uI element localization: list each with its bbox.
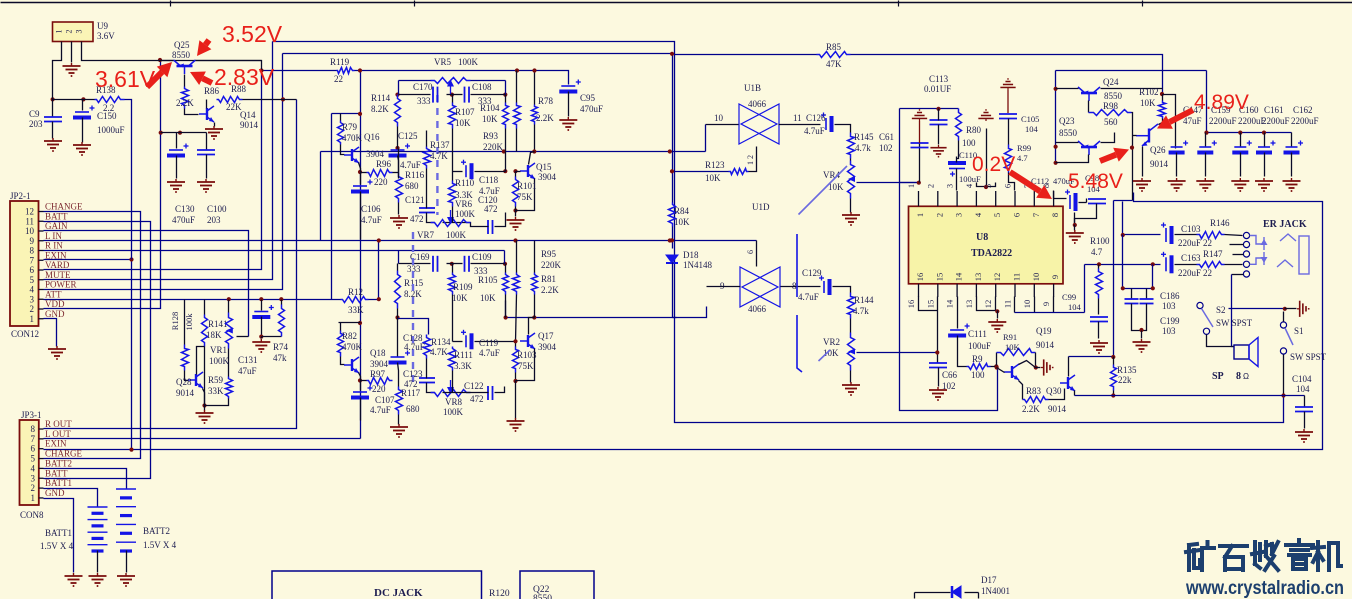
- ground S1 rail sideways: [1297, 301, 1309, 317]
- capacitor C100: [206, 133, 208, 151]
- capacitor C120: [488, 220, 493, 234]
- ground Q26: [1133, 178, 1151, 191]
- ground C186/C199: [1133, 339, 1151, 352]
- watermark logo: [1186, 542, 1214, 570]
- connector JP3-1: [20, 420, 39, 505]
- svg-text:1: 1: [30, 314, 35, 324]
- svg-text:220uF: 220uF: [1178, 238, 1201, 248]
- svg-text:R9: R9: [972, 354, 983, 364]
- resistor R123: [729, 169, 749, 175]
- svg-text:472: 472: [484, 204, 498, 214]
- svg-text:11: 11: [1003, 300, 1013, 308]
- svg-text:100uF: 100uF: [968, 341, 991, 351]
- svg-text:GND: GND: [45, 309, 65, 319]
- resistor R102: [1159, 101, 1166, 119]
- svg-text:Q16: Q16: [364, 132, 380, 142]
- svg-text:12: 12: [25, 207, 34, 217]
- svg-text:C9: C9: [29, 109, 40, 119]
- resistor R119: [337, 68, 355, 74]
- svg-text:7: 7: [1031, 213, 1041, 217]
- svg-text:6: 6: [31, 444, 36, 454]
- capacitor C105: [1000, 79, 1015, 90]
- svg-text:102: 102: [879, 143, 893, 153]
- transistor Q14: [199, 106, 214, 122]
- svg-text:R83: R83: [1026, 386, 1042, 396]
- svg-text:1: 1: [915, 213, 925, 217]
- svg-text:10: 10: [714, 113, 724, 123]
- svg-text:100K: 100K: [443, 407, 464, 417]
- svg-text:47uF: 47uF: [238, 366, 257, 376]
- svg-text:9: 9: [1050, 275, 1060, 279]
- capacitor C106: [360, 173, 362, 185]
- pin 6 U8: [1014, 191, 1016, 206]
- svg-text:Q18: Q18: [370, 348, 386, 358]
- svg-text:C111: C111: [968, 329, 987, 339]
- capacitor C103: [1161, 223, 1172, 245]
- ground C159: [1196, 178, 1214, 191]
- ground Q19 sideways: [1041, 359, 1053, 375]
- wire C113 loop: [900, 108, 959, 110]
- svg-text:R147: R147: [1203, 249, 1223, 259]
- resistor R128: [184, 300, 186, 345]
- svg-text:10K: 10K: [1005, 342, 1021, 352]
- wire y113 rail: [332, 113, 361, 115]
- svg-text:VR8: VR8: [445, 397, 463, 407]
- wire L OUT: [44, 438, 361, 440]
- svg-text:4066: 4066: [748, 99, 767, 109]
- svg-text:R84: R84: [674, 206, 690, 216]
- svg-text:10K: 10K: [482, 114, 498, 124]
- svg-text:103: 103: [1162, 301, 1176, 311]
- svg-text:R80: R80: [966, 125, 982, 135]
- svg-text:BATT1: BATT1: [45, 528, 72, 538]
- svg-text:R117: R117: [401, 388, 421, 398]
- jack contacts: [1243, 232, 1249, 238]
- resistor R115: [395, 271, 401, 309]
- svg-text:8.2K: 8.2K: [371, 104, 389, 114]
- svg-text:C109: C109: [472, 252, 492, 262]
- pin 11 U8: [1014, 284, 1016, 297]
- capacitor C121: [419, 208, 435, 213]
- svg-text:SW SPST: SW SPST: [1290, 352, 1327, 362]
- svg-text:6: 6: [1003, 184, 1013, 188]
- svg-text:R135: R135: [1117, 365, 1137, 375]
- wire BATT2: [44, 469, 127, 489]
- svg-text:472: 472: [404, 379, 418, 389]
- svg-text:5: 5: [983, 184, 993, 188]
- capacitor C122: [488, 386, 493, 400]
- svg-text:8550: 8550: [1104, 91, 1123, 101]
- ground R117: [390, 424, 408, 437]
- resistor R81: [532, 273, 538, 295]
- svg-text:8550: 8550: [172, 50, 191, 60]
- resistor R138: [95, 97, 125, 103]
- capacitor C128: [397, 318, 399, 357]
- speaker SP: [1234, 345, 1249, 359]
- svg-text:1N4001: 1N4001: [981, 586, 1010, 596]
- power flag pin4/5: [978, 110, 993, 121]
- pin 1 U8: [918, 191, 920, 206]
- capacitor C66: [937, 353, 939, 363]
- resistor R101: [513, 177, 519, 207]
- svg-text:DC JACK: DC JACK: [374, 587, 423, 599]
- svg-text:100: 100: [971, 370, 985, 380]
- svg-text:R110: R110: [455, 178, 475, 188]
- svg-text:R105: R105: [478, 275, 498, 285]
- capacitor C112: [1065, 190, 1076, 212]
- svg-text:C126: C126: [806, 113, 826, 123]
- ground C160: [1231, 178, 1249, 191]
- capacitor C159: [1205, 133, 1207, 147]
- svg-text:1: 1: [31, 493, 36, 503]
- svg-text:2: 2: [31, 483, 36, 493]
- svg-text:9014: 9014: [176, 388, 195, 398]
- resistor R103: [513, 347, 519, 373]
- svg-text:VR5: VR5: [434, 57, 452, 67]
- transistor Q15: [520, 163, 535, 179]
- resistor R91: [996, 353, 998, 368]
- wire EXIN bus: [44, 259, 132, 261]
- svg-text:680: 680: [406, 404, 420, 414]
- svg-text:R120: R120: [489, 589, 510, 599]
- svg-text:100K: 100K: [209, 356, 230, 366]
- capacitor C98: [1088, 199, 1106, 204]
- wire top S1 rail: [1229, 308, 1285, 310]
- svg-text:472: 472: [470, 394, 484, 404]
- svg-text:D17: D17: [981, 575, 997, 585]
- svg-text:R145: R145: [854, 132, 874, 142]
- resistor R97: [367, 378, 393, 385]
- svg-text:11: 11: [25, 216, 34, 226]
- svg-text:75K: 75K: [517, 192, 533, 202]
- ground VR4: [842, 212, 860, 225]
- svg-text:3: 3: [30, 294, 35, 304]
- pin 16 U8: [918, 284, 920, 297]
- svg-text:3.52V: 3.52V: [222, 21, 283, 47]
- capacitor C108: [465, 87, 470, 103]
- svg-text:220K: 220K: [541, 260, 562, 270]
- capacitor C170: [433, 87, 438, 103]
- svg-text:12: 12: [983, 300, 993, 309]
- capacitor C111: [957, 297, 959, 329]
- svg-text:U1B: U1B: [744, 83, 761, 93]
- svg-text:47uF: 47uF: [1183, 116, 1202, 126]
- svg-text:ATT: ATT: [45, 289, 62, 299]
- switch S1: [1280, 322, 1286, 328]
- svg-text:10K: 10K: [705, 173, 721, 183]
- svg-text:2200uF: 2200uF: [1209, 116, 1237, 126]
- pin 12 U8: [995, 284, 997, 297]
- svg-text:CHANGE: CHANGE: [45, 202, 83, 212]
- svg-text:2200uF: 2200uF: [1291, 116, 1319, 126]
- svg-text:Q14: Q14: [240, 110, 256, 120]
- svg-text:BATT: BATT: [45, 211, 68, 221]
- svg-text:R109: R109: [453, 282, 473, 292]
- ground C95: [559, 117, 577, 130]
- svg-text:R102: R102: [1139, 87, 1159, 97]
- svg-text:R141: R141: [208, 319, 228, 329]
- switch U1D: [740, 267, 780, 307]
- svg-text:C162: C162: [1293, 105, 1313, 115]
- svg-text:R59: R59: [208, 375, 224, 385]
- svg-text:C170: C170: [413, 82, 433, 92]
- transistor Q28: [188, 372, 203, 388]
- svg-text:U1D: U1D: [752, 202, 770, 212]
- svg-text:8: 8: [30, 246, 35, 256]
- svg-text:VR1: VR1: [210, 345, 227, 355]
- wire S2 to speaker: [1207, 335, 1235, 347]
- ground JP3 GND: [65, 573, 83, 586]
- svg-text:3.61V: 3.61V: [95, 66, 156, 92]
- pin 15 U8: [937, 284, 939, 297]
- svg-text:1: 1: [55, 30, 64, 34]
- wire BATT1: [44, 489, 98, 507]
- ground C104: [1295, 429, 1313, 442]
- svg-text:14: 14: [954, 272, 964, 281]
- svg-text:4.89V: 4.89V: [1194, 91, 1249, 114]
- svg-text:CHARGE: CHARGE: [45, 449, 83, 459]
- svg-text:4.7uF: 4.7uF: [479, 348, 500, 358]
- svg-text:VR2: VR2: [823, 337, 840, 347]
- svg-text:R97: R97: [370, 369, 386, 379]
- capacitor C147: [1169, 141, 1189, 153]
- resistor R100: [1096, 269, 1103, 299]
- svg-text:www.crystalradio.cn: www.crystalradio.cn: [1185, 578, 1344, 599]
- capacitor C162: [1291, 133, 1293, 147]
- wire R98 to Q26 base and mute rail: [1132, 113, 1133, 201]
- potentiometer VR8: [431, 390, 471, 397]
- svg-text:2200uF: 2200uF: [1262, 116, 1290, 126]
- wire VARD: [44, 71, 262, 270]
- svg-text:4.7uF: 4.7uF: [798, 292, 819, 302]
- svg-text:R96: R96: [376, 159, 392, 169]
- diode D18: [666, 255, 678, 263]
- svg-text:5: 5: [30, 275, 35, 285]
- potentiometer VR2: [848, 333, 855, 371]
- svg-text:R12: R12: [348, 287, 363, 297]
- svg-text:R146: R146: [1210, 218, 1230, 228]
- svg-text:U9: U9: [97, 21, 108, 31]
- svg-text:103: 103: [1162, 326, 1176, 336]
- pin 2 U8: [937, 191, 939, 206]
- capacitor C61: [919, 143, 921, 183]
- svg-text:8: 8: [1050, 213, 1060, 217]
- svg-text:5: 5: [992, 213, 1002, 217]
- ground C161: [1255, 178, 1273, 191]
- svg-text:EXIN: EXIN: [45, 250, 67, 260]
- svg-text:R81: R81: [541, 274, 556, 284]
- diode D17: [915, 592, 951, 594]
- pin 3 U8: [956, 191, 958, 206]
- svg-text:12: 12: [992, 273, 1002, 282]
- wire mid vertical x360: [360, 71, 362, 381]
- svg-text:0.2V: 0.2V: [972, 153, 1015, 176]
- svg-text:22k: 22k: [1118, 375, 1132, 385]
- svg-text:9014: 9014: [1036, 340, 1055, 350]
- svg-text:75K: 75K: [518, 361, 534, 371]
- wire GND JP3: [44, 499, 74, 573]
- capacitor C163: [1161, 252, 1172, 273]
- svg-text:Q30: Q30: [1046, 386, 1062, 396]
- ground C131: [252, 339, 270, 352]
- wire R OUT: [44, 100, 297, 429]
- capacitor C119: [461, 330, 472, 350]
- pin 9 U8: [1053, 284, 1055, 297]
- svg-text:R144: R144: [854, 295, 874, 305]
- ground JP2 GND: [48, 346, 66, 359]
- resistor R147: [1197, 262, 1225, 268]
- capacitor C113 body: [930, 120, 948, 125]
- box Q22: [520, 571, 594, 599]
- wire cap row bus: [1207, 132, 1292, 134]
- svg-text:SP: SP: [1212, 371, 1224, 382]
- resistor R83: [1023, 397, 1049, 403]
- pin 5 U8: [995, 191, 997, 206]
- svg-text:3904: 3904: [370, 359, 389, 369]
- svg-text:R98: R98: [1103, 101, 1119, 111]
- capacitor C150: [82, 100, 84, 111]
- svg-text:47k: 47k: [273, 353, 287, 363]
- wire L IN bus: [44, 240, 757, 242]
- ground C162: [1283, 178, 1301, 191]
- wire U1D pins: [707, 286, 741, 288]
- svg-text:5.48V: 5.48V: [1068, 170, 1123, 193]
- svg-text:Q19: Q19: [1036, 326, 1052, 336]
- resistor R105: [503, 273, 509, 295]
- svg-text:0.01UF: 0.01UF: [924, 84, 951, 94]
- svg-text:C103: C103: [1181, 224, 1201, 234]
- wire C186 loop: [1122, 235, 1124, 289]
- svg-text:C150: C150: [97, 111, 117, 121]
- svg-text:R79: R79: [342, 122, 358, 132]
- svg-text:C122: C122: [464, 381, 484, 391]
- resistor R99: [1005, 145, 1012, 173]
- resistor R93: [514, 103, 521, 129]
- pin 14 U8: [956, 284, 958, 297]
- svg-text:13: 13: [973, 273, 983, 282]
- potentiometer VR5: [431, 78, 471, 84]
- capacitor C9: [52, 100, 54, 117]
- svg-text:3: 3: [75, 30, 84, 34]
- wire VDD: [44, 61, 161, 309]
- svg-text:22: 22: [1203, 238, 1212, 248]
- svg-text:3.3K: 3.3K: [454, 361, 472, 371]
- svg-text:22K: 22K: [226, 102, 242, 112]
- svg-text:VDD: VDD: [45, 299, 65, 309]
- svg-text:18K: 18K: [206, 330, 222, 340]
- wire net A (mute rail): [273, 42, 1284, 423]
- svg-text:R114: R114: [371, 93, 391, 103]
- switch U1B: [739, 104, 779, 144]
- svg-text:33K: 33K: [348, 305, 364, 315]
- svg-text:220: 220: [374, 177, 388, 187]
- svg-text:3904: 3904: [538, 172, 557, 182]
- wire cap rail y94.6: [399, 94, 431, 96]
- svg-text:4: 4: [31, 463, 36, 473]
- svg-text:203: 203: [29, 119, 43, 129]
- svg-text:C95: C95: [580, 93, 596, 103]
- resistor R98: [1089, 110, 1132, 116]
- svg-text:102: 102: [942, 381, 956, 391]
- resistor R9: [967, 364, 991, 370]
- svg-text:10: 10: [1022, 300, 1032, 309]
- junction dots: [158, 58, 162, 62]
- svg-text:1 2: 1 2: [746, 155, 755, 165]
- wire pin8 top cap: [1054, 191, 1067, 199]
- resistor R79: [340, 114, 342, 121]
- ground C99: [1090, 340, 1108, 353]
- svg-text:R137: R137: [430, 140, 450, 150]
- wire BATT: [44, 222, 151, 479]
- svg-text:3: 3: [954, 213, 964, 217]
- svg-text:C113: C113: [929, 74, 949, 84]
- svg-text:333: 333: [417, 96, 431, 106]
- svg-text:2.2K: 2.2K: [1022, 404, 1040, 414]
- svg-text:C107: C107: [375, 395, 395, 405]
- ground R116: [390, 215, 408, 228]
- svg-text:10K: 10K: [674, 217, 690, 227]
- svg-text:EXIN: EXIN: [45, 439, 67, 449]
- svg-text:47K: 47K: [826, 59, 842, 69]
- svg-text:6: 6: [746, 250, 755, 254]
- svg-text:R107: R107: [455, 107, 475, 117]
- svg-text:R74: R74: [273, 342, 289, 352]
- box DC JACK: [272, 571, 482, 599]
- svg-text:L IN: L IN: [45, 231, 62, 241]
- ground U9: [63, 63, 81, 76]
- svg-text:10K: 10K: [452, 293, 468, 303]
- svg-text:S1: S1: [1294, 326, 1304, 336]
- svg-text:2: 2: [925, 184, 935, 188]
- capacitor C160: [1240, 133, 1242, 147]
- svg-text:CON12: CON12: [11, 329, 39, 339]
- svg-text:R99: R99: [1017, 143, 1031, 153]
- pin 4 U8: [975, 191, 977, 206]
- capacitor C118: [461, 160, 472, 180]
- wire net C (supply rail to C95): [262, 70, 337, 72]
- resistor R144: [848, 293, 855, 319]
- svg-text:TDA2822: TDA2822: [971, 248, 1012, 259]
- svg-text:6: 6: [1012, 213, 1022, 217]
- svg-text:220uF: 220uF: [1178, 268, 1201, 278]
- svg-text:2.2K: 2.2K: [541, 285, 559, 295]
- svg-text:1: 1: [906, 184, 916, 188]
- resistor R96: [367, 170, 393, 177]
- svg-text:U8: U8: [976, 232, 988, 243]
- transistor Q23: [1078, 141, 1100, 155]
- wire VR5 frame: [399, 80, 431, 82]
- svg-text:4.7uF: 4.7uF: [370, 405, 391, 415]
- svg-text:4.7uF: 4.7uF: [404, 342, 425, 352]
- wire U1B pins: [706, 124, 739, 126]
- svg-text:R134: R134: [431, 337, 451, 347]
- svg-text:2.2K: 2.2K: [536, 113, 554, 123]
- wire VR7 ends: [398, 149, 400, 179]
- svg-text:15: 15: [925, 300, 935, 309]
- wire R IN: [44, 250, 399, 252]
- wire Q23 Q24 frame: [1056, 70, 1207, 72]
- ground C150: [73, 142, 91, 155]
- svg-text:C123: C123: [403, 369, 423, 379]
- resistor R95: [513, 273, 520, 295]
- svg-text:13: 13: [964, 300, 974, 309]
- gang link diagonal U1D-VR4: [799, 166, 848, 215]
- transistor Q26: [1136, 124, 1158, 146]
- svg-text:104: 104: [1068, 302, 1082, 312]
- svg-text:Q15: Q15: [536, 162, 552, 172]
- wire R85 rail: [675, 54, 817, 56]
- svg-text:14: 14: [945, 299, 955, 308]
